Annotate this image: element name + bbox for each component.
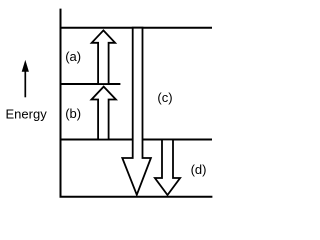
svg-text:(d): (d) bbox=[191, 162, 207, 177]
ground level line (bottom) bbox=[60, 196, 213, 198]
Energy axis arrow (filled) bbox=[22, 60, 29, 72]
top energy level line bbox=[60, 27, 213, 29]
Energy axis arrow shaft bbox=[24, 70, 26, 97]
lower energy level line bbox=[60, 139, 213, 141]
arrow (b) hollow up bbox=[92, 87, 116, 140]
arrow (d) hollow down bbox=[155, 140, 180, 196]
arrow (c) hollow down bbox=[122, 28, 151, 195]
intermediate energy level line bbox=[60, 83, 121, 85]
svg-text:(a): (a) bbox=[65, 49, 81, 64]
arrow (a) hollow up bbox=[92, 30, 115, 84]
svg-text:(b): (b) bbox=[65, 106, 81, 121]
energy axis (vertical) bbox=[60, 9, 62, 197]
svg-text:(c): (c) bbox=[157, 90, 172, 105]
svg-text:Energy: Energy bbox=[6, 106, 48, 121]
